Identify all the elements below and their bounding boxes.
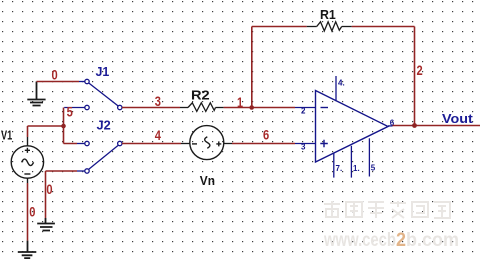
resistor R1 [307,22,352,31]
svg-text:2: 2 [417,63,423,78]
wire: V1 plus to junction [28,126,64,146]
wire: op-amp output to Vout (junction) [393,125,480,127]
op-amp pin 2 stub [295,107,316,116]
wire: J2 lower throw to GND2 [46,171,85,218]
svg-text:2: 2 [301,107,306,116]
wire: node 5 corner to J1 lower throw [64,108,85,127]
svg-text:3: 3 [301,143,306,152]
op-amp pin 4 [336,76,345,101]
svg-text:R1: R1 [320,7,336,22]
op-amp pin 7 [334,154,342,178]
svg-text:Vn: Vn [200,173,215,188]
svg-text:www.cecb: www.cecb [323,230,396,251]
resistor R2 [180,103,224,112]
wire: V1 minus to GND3 [27,178,29,240]
op-amp pin 3 stub [295,143,316,152]
wire: J2 common to Vn (net 4) [122,143,190,145]
switch J1 [85,79,122,109]
svg-text:1: 1 [237,95,243,110]
wire: J1 common to R2 (net 3) [122,107,180,109]
svg-text:5: 5 [67,104,74,119]
svg-text:6: 6 [263,128,270,143]
junction node 2 / output [412,123,417,128]
wire: Vn to op-amp pin 3 (net 6) [224,143,295,145]
op-amp pin 6 (output stub) [388,118,395,127]
svg-text:7.: 7. [336,164,343,173]
wire: GND1 to J1 upper throw [37,81,85,83]
wire: junction to J2 upper throw [64,126,85,144]
svg-text:0: 0 [29,205,35,220]
watermark line 2 www.cecb2b.com [323,230,459,251]
wire: R2 to op-amp pin 2 (net 1) [224,107,295,109]
noise source Vn [190,126,224,160]
svg-text:4.: 4. [338,79,345,88]
svg-text:2: 2 [396,230,406,251]
ground GND3 [18,241,37,259]
junction node 5 [61,124,66,129]
feedback wire (net 1 up, net 2 across) [252,27,307,108]
wire: R1 to output node (net 2) [352,27,415,126]
junction node 1 [249,105,254,110]
svg-text:0: 0 [46,182,52,197]
svg-text:R2: R2 [191,88,210,103]
svg-text:J2: J2 [97,117,111,132]
op-amp pin 1 [351,146,359,178]
svg-text:J1: J1 [96,64,110,79]
watermark line 1 (元器件交易网 placeholder glyphs) [324,201,450,218]
svg-text:5: 5 [371,164,376,173]
op-amp U1 [316,91,389,163]
ground GND2 [37,218,55,231]
switch J2 [85,141,122,173]
svg-text:V1: V1 [1,128,12,143]
svg-text:4: 4 [155,128,162,143]
ground GND1 (top left) [27,82,45,106]
op-amp pin 5 [369,138,375,176]
svg-text:b.com: b.com [406,230,459,251]
svg-text:0: 0 [52,68,58,83]
svg-text:1.: 1. [353,164,360,173]
voltage source V1 [11,146,43,178]
svg-text:Vout: Vout [442,111,474,126]
svg-text:3: 3 [155,94,162,109]
